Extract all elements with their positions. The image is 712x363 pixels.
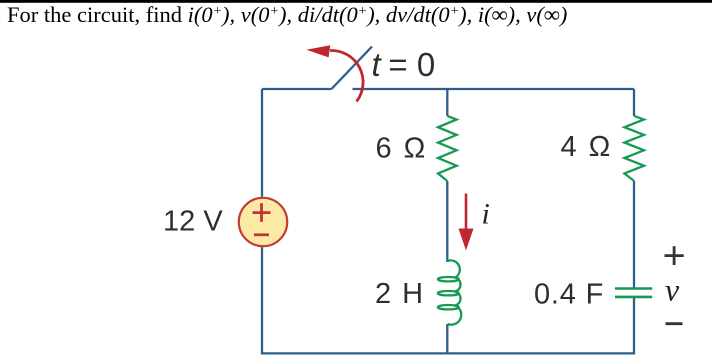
svg-text:i: i [482,197,490,230]
svg-text:12 V: 12 V [163,205,223,237]
svg-text:4 Ω: 4 Ω [561,131,613,163]
svg-text:v: v [665,272,680,308]
svg-text:6 Ω: 6 Ω [376,133,428,165]
svg-text:2 H: 2 H [375,278,425,310]
svg-text:For the circuit, find i(0+), v: For the circuit, find i(0+), v(0+), di/d… [7,2,567,27]
svg-text:0.4 F: 0.4 F [534,279,604,311]
svg-text:t= 0: t= 0 [372,46,436,83]
